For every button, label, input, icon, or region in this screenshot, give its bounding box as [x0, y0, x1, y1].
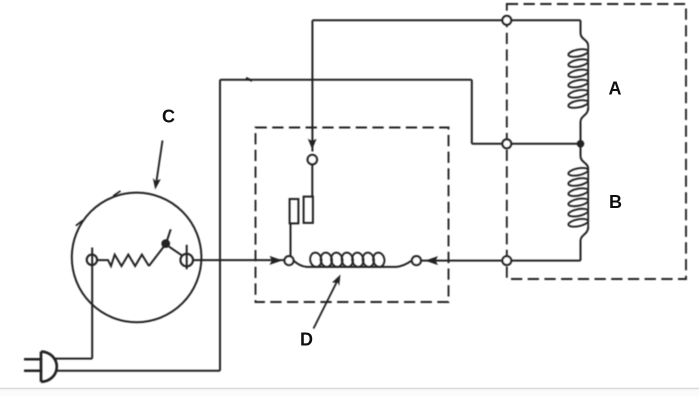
junction dot windings — [577, 140, 585, 148]
winding A loops — [568, 48, 589, 109]
winding A exit lead — [581, 108, 589, 144]
wire second supply from riser corner to right — [220, 79, 472, 81]
terminal winding box bottom — [502, 256, 511, 265]
winding B loops — [568, 167, 589, 228]
terminal relay coil right — [412, 256, 421, 265]
arrow down into relay terminal — [308, 139, 317, 150]
stub through right terminal — [186, 245, 188, 269]
wire vertical drop to relay terminal — [311, 20, 313, 151]
relay contact left blade — [290, 199, 299, 223]
relay contact right blade — [304, 197, 313, 223]
wire timer output to relay — [193, 259, 285, 261]
arrow left into coil right terminal — [425, 256, 438, 265]
winding B lead top — [581, 144, 589, 169]
motor windings enclosure dashed box — [507, 4, 686, 279]
terminal relay coil left — [285, 256, 294, 265]
terminal winding box middle — [502, 139, 511, 148]
terminal timer right — [180, 254, 193, 267]
resistor heating element — [97, 255, 149, 266]
terminal winding box top — [502, 16, 511, 25]
plug prong top — [24, 358, 41, 361]
plug P1 body — [41, 352, 57, 382]
relay enclosure dashed box D — [256, 128, 449, 303]
tick mark left on circle — [76, 220, 83, 225]
wire relay coil to winding B bottom — [421, 260, 581, 262]
wire into winding junction — [472, 143, 581, 145]
wire drop at x=472 — [471, 80, 473, 144]
wire riser to timer left terminal — [91, 248, 93, 359]
tick mark on supply wire — [246, 78, 252, 81]
svg-text:B: B — [609, 192, 622, 212]
winding B spine — [587, 169, 589, 229]
motor housing circle C — [72, 193, 202, 323]
winding A lead top — [581, 20, 589, 46]
winding A spine — [587, 46, 589, 110]
svg-text:A: A — [609, 79, 622, 99]
bottom separator line — [0, 388, 699, 390]
arrow right into coil left terminal — [270, 256, 283, 265]
switch link to right terminal — [169, 247, 182, 256]
tick mark upper left on circle — [113, 191, 120, 196]
relay coil D baseline — [294, 261, 412, 267]
label D arrow — [314, 282, 338, 329]
plug prong bottom — [24, 370, 41, 373]
switch pivot dot — [161, 239, 170, 248]
svg-text:C: C — [162, 107, 175, 127]
wire bottom run to plug — [56, 370, 221, 372]
wire top supply from corner to winding A lead — [313, 19, 581, 21]
wire from left blade to coil node — [290, 223, 292, 256]
wire plug top prong run — [56, 358, 93, 360]
terminal relay top — [308, 155, 317, 164]
label C arrow — [157, 141, 163, 182]
switch arm — [149, 229, 171, 266]
winding B exit lead — [581, 227, 589, 261]
relay coil D loops — [309, 252, 386, 268]
wire below relay top terminal — [311, 164, 313, 197]
wire left riser x=220 — [219, 80, 221, 371]
terminal timer left — [87, 255, 97, 265]
svg-text:D: D — [300, 330, 313, 350]
